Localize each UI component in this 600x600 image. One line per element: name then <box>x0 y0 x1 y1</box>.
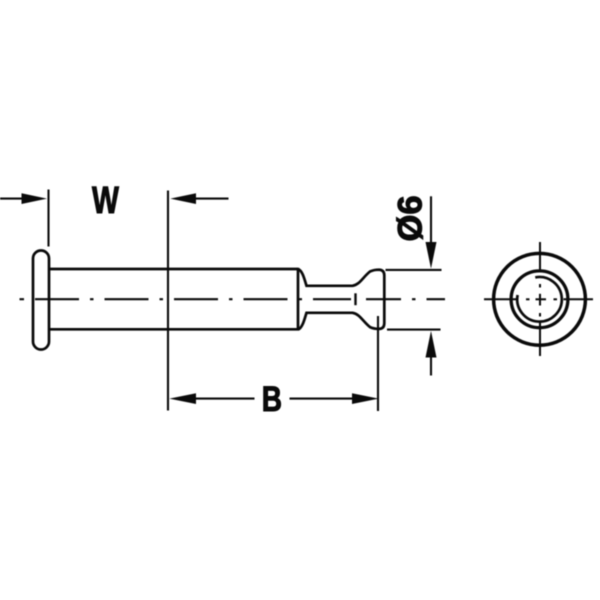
B dimension right arrowhead <box>352 393 379 404</box>
B dimension line left part <box>194 398 255 400</box>
end view inner broken arc <box>517 277 562 322</box>
svg-text:W: W <box>92 180 119 222</box>
end view middle circle <box>511 271 568 328</box>
end view vertical centerline <box>539 242 541 356</box>
diameter extension line bottom <box>387 329 441 331</box>
B dimension left arrowhead <box>169 393 196 404</box>
neck and flared head outline <box>298 269 384 330</box>
W dimension right arrowhead <box>170 193 196 204</box>
W dimension left arrowhead <box>22 193 48 204</box>
B dimension line right part <box>290 398 355 400</box>
extension line W left <box>47 190 49 247</box>
shaft end face <box>297 268 300 331</box>
diameter dimension lower line <box>430 356 432 376</box>
diameter dimension lower arrowhead <box>426 331 437 358</box>
shaft bottom edge <box>49 328 298 331</box>
diameter dimension upper arrowhead <box>426 242 437 269</box>
end view horizontal centerline <box>484 298 593 300</box>
W dimension left leader <box>0 198 24 200</box>
diameter dimension upper line <box>430 196 432 244</box>
end view outer circle <box>494 253 586 345</box>
W dimension right leader <box>194 198 229 200</box>
extension line W/B shared <box>167 191 169 411</box>
shaft top edge <box>49 268 298 271</box>
extension line B right <box>377 316 379 411</box>
centerline of pin <box>20 298 446 300</box>
flange (left head) <box>33 251 49 350</box>
tangent tick at neck/flare <box>354 293 356 305</box>
svg-text:B: B <box>262 379 282 419</box>
svg-text:Ø6: Ø6 <box>392 195 430 241</box>
diameter extension line top <box>386 269 442 271</box>
